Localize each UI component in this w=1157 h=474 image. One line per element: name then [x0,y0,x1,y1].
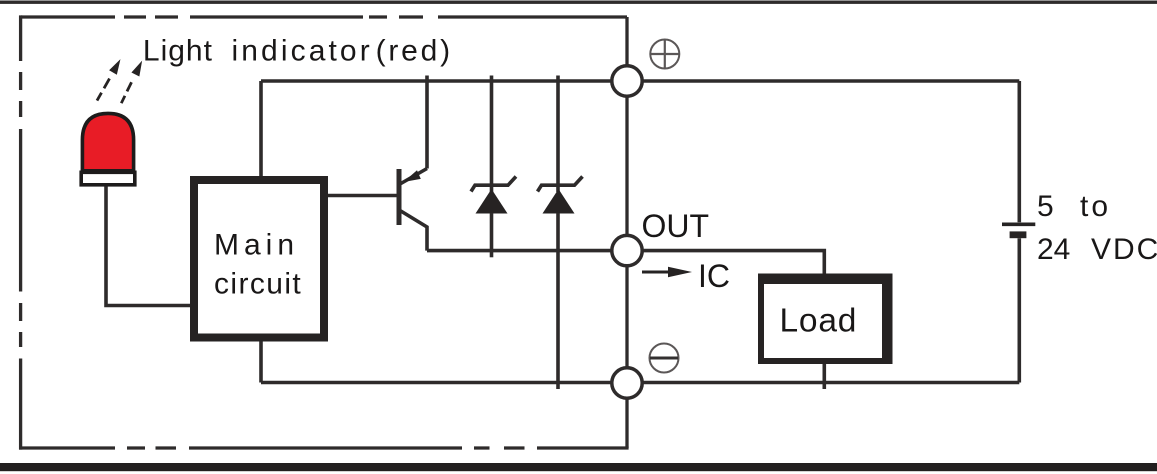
load box [758,274,893,365]
terminal circle + [612,66,642,96]
main circuit block [194,180,324,338]
transistor Q1 (PNP output) [399,76,427,251]
top page rule [0,1,1157,4]
wire: 0V bottom rail [261,381,1019,385]
svg-text:OUT: OUT [642,208,710,244]
terminal circle OUT [612,235,642,265]
LED indicator lamp (red) [81,113,135,184]
sensor enclosure dashed outline (left edge) [19,15,22,449]
wire: main circuit to +V rail [259,81,263,176]
wire: OUT rail to load [427,251,824,274]
wire: +V top rail [261,79,1019,83]
svg-text:(red): (red) [376,35,453,68]
wire: main circuit to 0V rail [259,342,263,383]
label: Main circuit [214,229,302,301]
svg-text:Light: Light [143,35,213,68]
polarity symbol circled plus [650,40,679,69]
svg-text:IC: IC [698,258,730,294]
sensor enclosure dashed outline (top edge) [21,15,627,18]
IC current arrow [642,267,692,277]
battery (5 to 24 VDC) [1002,81,1035,383]
svg-text:to: to [1080,190,1111,223]
svg-text:24: 24 [1037,233,1070,266]
wire: base of Q1 [328,194,398,198]
bottom page bar [0,463,1157,471]
sensor enclosure dashed outline (bottom edge) [19,446,629,449]
svg-text:VDC: VDC [1091,233,1157,266]
svg-text:indicator: indicator [232,35,373,68]
zener diode ZD2 [538,76,583,390]
svg-text:Load: Load [780,303,858,340]
LED emission arrows [97,64,140,104]
zener diode ZD1 [471,76,516,258]
polarity symbol circled minus [650,344,679,373]
svg-text:Main: Main [214,229,299,262]
label: Light indicator (red) [143,35,453,68]
wire: load to 0V rail [822,364,826,389]
terminal circle - [612,368,642,398]
svg-text:5: 5 [1037,190,1054,223]
svg-text:circuit: circuit [214,268,302,301]
terminal bus (right edge of enclosure) [625,17,628,448]
label: 5 to 24 VDC [1037,190,1157,266]
wire: LED cathode to main circuit [106,187,190,306]
